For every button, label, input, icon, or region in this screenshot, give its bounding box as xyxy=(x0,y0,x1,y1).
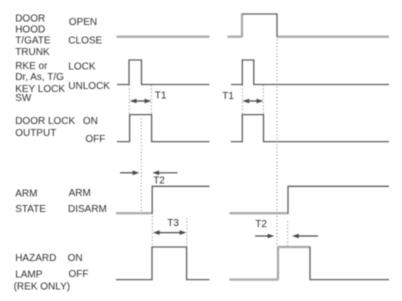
svg-text:OUTPUT: OUTPUT xyxy=(15,128,56,139)
svg-text:CLOSE: CLOSE xyxy=(68,35,102,46)
svg-text:OFF: OFF xyxy=(85,134,105,145)
svg-text:T3: T3 xyxy=(167,218,179,229)
svg-text:(REK ONLY): (REK ONLY) xyxy=(14,282,71,293)
svg-text:DISARM: DISARM xyxy=(68,204,107,215)
svg-text:OFF: OFF xyxy=(69,269,89,280)
svg-text:ARM: ARM xyxy=(69,188,91,199)
svg-text:HAZARD: HAZARD xyxy=(15,253,56,264)
svg-text:RKE or: RKE or xyxy=(15,61,48,72)
svg-text:TRUNK: TRUNK xyxy=(15,47,50,58)
svg-text:SW: SW xyxy=(15,93,32,104)
svg-text:LAMP: LAMP xyxy=(15,269,43,280)
svg-text:STATE: STATE xyxy=(15,204,46,215)
svg-text:ARM: ARM xyxy=(15,188,37,199)
svg-text:T1: T1 xyxy=(222,91,234,102)
svg-text:T2: T2 xyxy=(255,219,267,230)
svg-text:ON: ON xyxy=(68,253,83,264)
svg-text:Dr, As, T/G: Dr, As, T/G xyxy=(15,72,64,83)
svg-text:T2: T2 xyxy=(153,176,165,187)
svg-text:UNLOCK: UNLOCK xyxy=(68,81,110,92)
svg-text:OPEN: OPEN xyxy=(69,17,97,28)
svg-text:DOOR LOCK: DOOR LOCK xyxy=(15,116,75,127)
svg-text:T1: T1 xyxy=(155,90,167,101)
svg-text:HOOD: HOOD xyxy=(15,24,45,35)
svg-text:ON: ON xyxy=(83,116,98,127)
svg-text:T/GATE: T/GATE xyxy=(15,36,51,47)
svg-text:DOOR: DOOR xyxy=(15,14,45,25)
svg-text:LOCK: LOCK xyxy=(68,62,96,73)
